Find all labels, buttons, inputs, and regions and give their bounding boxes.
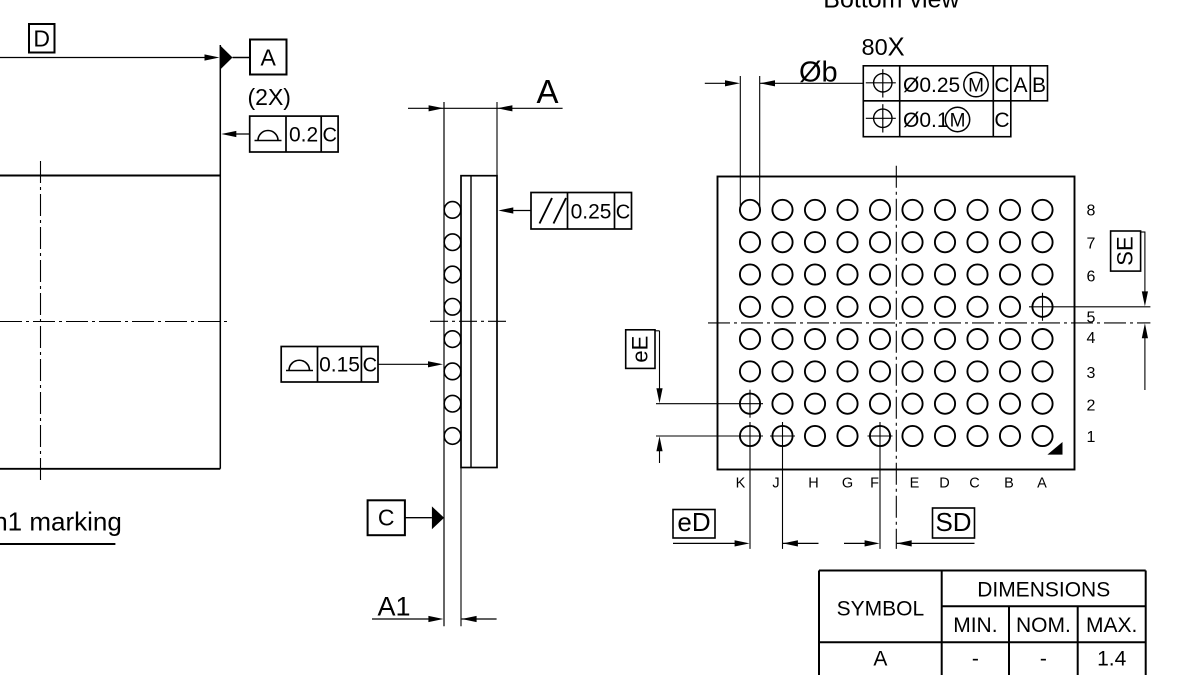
svg-text:J: J xyxy=(772,476,779,492)
dimension A1 arrows xyxy=(372,616,497,622)
top view: horizontal centerline xyxy=(0,321,228,323)
svg-text:eE: eE xyxy=(627,336,652,363)
row number labels xyxy=(1087,203,1096,446)
svg-text:C: C xyxy=(363,355,377,377)
crosshair ball K1: vertical line down to eD dim xyxy=(749,422,751,549)
svg-text:H: H xyxy=(808,476,818,492)
crosshair ball K2: vertical tick xyxy=(749,390,751,418)
svg-text:4: 4 xyxy=(1087,330,1096,347)
svg-text:SD: SD xyxy=(935,507,971,537)
crosshair ball F1: vertical line down to SD dim xyxy=(879,422,881,549)
leader from 0.2 frame to edge xyxy=(221,131,249,137)
eE dimension line upper with down arrow xyxy=(656,331,662,404)
svg-text:F: F xyxy=(870,476,879,492)
crosshair ball K1: horizontal line to eE extension xyxy=(656,435,763,437)
SE dimension line lower with up arrow xyxy=(1142,323,1148,390)
svg-text:Ø0.1: Ø0.1 xyxy=(903,109,949,132)
svg-text:(2X): (2X) xyxy=(248,84,291,110)
svg-text:A: A xyxy=(873,648,887,671)
top view: bottom edge xyxy=(0,468,220,470)
svg-text:C: C xyxy=(994,74,1009,97)
Øb dimension: left tail with arrow xyxy=(705,80,740,86)
crosshair ball J1: horizontal tick xyxy=(770,435,795,437)
side view: seating plane line (datum C) xyxy=(443,102,445,626)
table outer and grid lines xyxy=(819,570,1146,572)
leader from 0.15 frame to seating line xyxy=(378,361,443,367)
svg-text:M: M xyxy=(950,111,966,132)
svg-text:B: B xyxy=(1032,74,1046,97)
svg-text:0.25: 0.25 xyxy=(571,201,612,224)
Øb dimension: right arrow and line to frame xyxy=(760,80,863,86)
svg-text:1.4: 1.4 xyxy=(1097,648,1127,671)
svg-text:-: - xyxy=(1040,648,1047,671)
bottom view: package outline xyxy=(718,177,1075,470)
svg-text:2: 2 xyxy=(1087,397,1096,414)
parallelism feature control frame // 0.25 C xyxy=(531,193,632,230)
SE dimension label box (rotated) xyxy=(1111,231,1141,271)
dimension A: dimension line and arrows xyxy=(408,105,563,111)
svg-text:7: 7 xyxy=(1087,235,1096,252)
svg-text:SE: SE xyxy=(1113,236,1138,265)
position tolerance frame row 1 xyxy=(863,66,1047,101)
svg-text:Øb: Øb xyxy=(799,57,838,89)
ball A1 corner marker (filled triangle) xyxy=(1047,442,1062,455)
flatness feature control frame 0.2 C xyxy=(250,116,338,152)
svg-text:Ø0.25: Ø0.25 xyxy=(903,74,960,97)
svg-text:SYMBOL: SYMBOL xyxy=(837,598,925,621)
top view: top edge xyxy=(0,175,220,177)
svg-text:n1 marking: n1 marking xyxy=(0,507,122,537)
datum A stem xyxy=(233,57,251,59)
svg-text:eD: eD xyxy=(677,507,710,537)
svg-text:C: C xyxy=(378,505,395,531)
svg-text:5: 5 xyxy=(1087,310,1096,327)
eE connector xyxy=(655,330,660,332)
SD dimension line with arrows (F to centerline) xyxy=(844,540,975,546)
crosshair ball J1: vertical line down to eD dim xyxy=(782,422,784,549)
svg-text:E: E xyxy=(910,476,920,492)
Øb extension lines tangent to ball K8 xyxy=(739,76,741,206)
column letter labels xyxy=(736,476,1048,492)
datum C label box xyxy=(368,500,405,535)
leader line from D to right edge xyxy=(0,54,220,60)
side view: body rectangle xyxy=(461,176,497,468)
svg-text:3: 3 xyxy=(1087,365,1096,382)
svg-text:A: A xyxy=(261,45,277,71)
side view: solder balls xyxy=(444,202,461,445)
datum C triangle (filled) xyxy=(432,506,444,529)
leader from parallelism frame to body edge xyxy=(498,207,531,213)
svg-text:1: 1 xyxy=(1087,429,1096,446)
side view: horizontal centerline xyxy=(430,320,510,322)
svg-text:6: 6 xyxy=(1087,268,1096,285)
datum A triangle (filled) on edge extension xyxy=(220,46,232,70)
position tolerance frame row 2 xyxy=(863,101,1011,137)
SD dimension label box xyxy=(933,507,975,538)
ball grid 10 x 8 xyxy=(740,200,1053,446)
crosshair ball F1: horizontal tick xyxy=(868,435,893,437)
datum C stem xyxy=(405,517,432,519)
svg-text:D: D xyxy=(939,476,949,492)
crosshair ball K2: horizontal line to eE extension xyxy=(656,403,763,405)
svg-text:C: C xyxy=(616,202,630,224)
eE dimension label box (rotated) xyxy=(626,330,655,369)
side view: body left edge extension down to A1 dim xyxy=(460,468,462,627)
svg-text:A: A xyxy=(536,73,558,110)
svg-text:A1: A1 xyxy=(377,592,410,622)
svg-text:M: M xyxy=(968,76,984,97)
svg-text:C: C xyxy=(994,109,1009,132)
svg-text:C: C xyxy=(969,476,979,492)
bottom view: horizontal centerline xyxy=(708,322,1150,324)
svg-text:MIN.: MIN. xyxy=(953,614,997,637)
svg-text:A: A xyxy=(1013,74,1027,97)
svg-text:Bottom view: Bottom view xyxy=(823,0,960,14)
svg-text:0.2: 0.2 xyxy=(289,124,318,147)
svg-text:G: G xyxy=(842,476,853,492)
svg-text:0.15: 0.15 xyxy=(319,354,360,377)
svg-text:NOM.: NOM. xyxy=(1016,614,1071,637)
side view: substrate inner line xyxy=(470,176,472,468)
top view: vertical centerline xyxy=(40,161,42,481)
SE connector xyxy=(1141,231,1145,233)
SE dimension line upper with down arrow xyxy=(1142,232,1148,307)
svg-text:D: D xyxy=(33,26,50,52)
datum D label box xyxy=(29,24,55,53)
eD dimension label box xyxy=(673,507,715,538)
flatness feature control frame 0.15 C xyxy=(281,347,378,383)
svg-text:-: - xyxy=(972,648,979,671)
svg-text:C: C xyxy=(322,125,336,147)
svg-text:B: B xyxy=(1004,476,1014,492)
svg-text:80X: 80X xyxy=(862,34,905,62)
svg-text:8: 8 xyxy=(1087,203,1096,220)
svg-text:A: A xyxy=(1037,476,1047,492)
svg-text:MAX.: MAX. xyxy=(1086,614,1137,637)
eD dimension line with arrows (K to J) xyxy=(673,540,819,546)
svg-text:K: K xyxy=(736,476,746,492)
eE dimension line lower with up arrow xyxy=(656,436,662,463)
crosshair ball A5: vertical tick xyxy=(1042,293,1044,321)
bottom view: vertical centerline xyxy=(895,166,897,549)
crosshair ball A5: horizontal line to SE extension xyxy=(1029,306,1150,308)
top view: right edge + extension line up to datum A xyxy=(219,45,221,469)
svg-text:DIMENSIONS: DIMENSIONS xyxy=(977,579,1110,602)
underline of marking note xyxy=(0,543,115,545)
datum A label box xyxy=(250,40,287,75)
side view: right edge extension up to A dim xyxy=(496,102,498,176)
